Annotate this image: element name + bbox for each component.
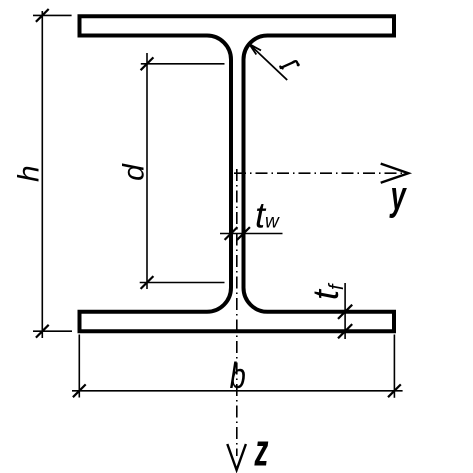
z axis (vertical centroidal axis, dash-dot) <box>236 169 238 456</box>
dimension tf: dim line <box>344 283 346 339</box>
dimension d: top extension line <box>141 63 225 65</box>
dimension h: top extension line <box>33 14 72 16</box>
I-beam cross-section outline <box>80 16 395 331</box>
dimension tf: bottom tick <box>338 324 352 338</box>
dimension h: dim line <box>41 11 43 338</box>
dimension b: right tick <box>388 384 401 397</box>
dimension h: bottom extension line <box>33 330 72 332</box>
dimension b: dim line <box>72 390 403 392</box>
dimension tw: left tick <box>225 227 238 240</box>
dimension tf: top tick <box>338 305 352 319</box>
dimension b: right extension line <box>393 335 395 398</box>
dimension d: dim line <box>146 53 148 289</box>
dimension b: left tick <box>73 384 86 397</box>
svg-text:z: z <box>254 425 269 473</box>
z axis arrow <box>227 444 246 470</box>
dimension h: bottom tick <box>36 325 49 338</box>
y axis arrow <box>381 164 409 183</box>
dimension tw: right tick <box>237 227 250 240</box>
dimension d: bottom tick <box>141 276 154 289</box>
svg-text:b: b <box>230 355 246 396</box>
fillet radius r: arrow barbs <box>249 44 261 54</box>
fillet radius r: leader arrow <box>249 44 287 80</box>
dimension d: top tick <box>141 57 154 70</box>
svg-text:y: y <box>389 173 407 219</box>
dimension b: left extension line <box>78 335 80 398</box>
dimension d: bottom extension line <box>140 282 225 284</box>
y axis (horizontal centroidal axis, dash-dot) <box>234 172 405 174</box>
dimension tw: dim line across web <box>220 233 283 235</box>
svg-text:d: d <box>118 163 151 181</box>
svg-text:h: h <box>13 165 46 182</box>
dimension h: top tick <box>36 9 49 22</box>
fillet radius r: label <box>280 61 298 68</box>
